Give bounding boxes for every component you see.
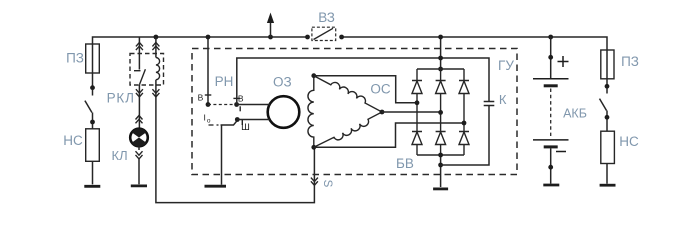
node bus-arrow [268,35,273,40]
svg-text:В: В [198,93,204,103]
svg-text:S: S [321,180,333,188]
wire + rail [417,68,464,70]
wire РКЛ left branch upper [138,37,140,70]
node В' (regulator to ОЗ) [234,102,239,107]
svg-text:АКБ: АКБ [563,107,587,121]
node bus-РКЛ right [154,35,159,40]
wire РКЛ coil to stator star point (node S) [156,80,315,203]
generator unit ГУ dashed box [192,49,517,175]
node phase B to col2 [438,110,443,115]
svg-text:РКЛ: РКЛ [107,90,135,105]
arrow to loads (up) [270,22,272,38]
fuse ПЗ right [601,50,614,79]
switch НС-left (contact) [90,85,95,90]
svg-text:ПЗ: ПЗ [621,54,639,69]
resistor НС right [601,131,615,163]
diode VD3 (col3 top) [459,69,469,132]
relay contact (РКЛ) [134,70,141,72]
connector arrows (star point wire) [311,178,318,186]
node stator right vertex [380,110,385,115]
wire capacitor return [441,106,489,166]
svg-text:ПЗ: ПЗ [66,51,84,66]
wire bus to РН [207,37,209,103]
label + [558,56,569,67]
svg-text:БВ: БВ [396,156,414,171]
svg-text:РН: РН [215,74,234,89]
svg-text:НС: НС [619,134,639,149]
connector arrows (left branch below box) [136,89,143,97]
switch НС-right (contact) [605,84,610,89]
ground (left НС) [84,185,100,188]
ignition switch ВЗ [305,35,310,40]
connector arrows (right branch top) [152,42,159,50]
stator winding ОС (triangle) [308,76,314,148]
wire phase C [314,123,464,147]
ground (БВ) [433,187,448,190]
connector arrows (above lamp) [136,116,143,124]
wire top bus left [93,37,308,44]
svg-text:о: о [207,118,211,125]
battery АКБ [548,35,553,40]
wire В' riser to D+ line and capacitor [237,58,489,105]
capacitor К [484,102,495,106]
svg-text:ОЗ: ОЗ [273,75,292,90]
wire Iо-Ш dashed line [209,124,219,126]
wire left branch to lamp [138,85,140,129]
node stator bottom vertex [311,145,316,150]
label - [556,151,566,153]
wire РН to ground [221,125,223,185]
node phase C to col3 [462,121,467,126]
resistor НС left [86,129,100,162]
svg-text:НС: НС [63,133,83,148]
svg-text:ГУ: ГУ [498,58,514,73]
connector arrows (right branch below box) [152,89,159,97]
svg-text:ВЗ: ВЗ [318,10,335,25]
wire Ш to ОЗ [237,119,269,121]
wire РКЛ right branch upper [155,37,157,58]
diode VD2 (col2 top) [436,69,446,132]
node Ш [235,117,240,122]
diode VD1 (col1 top) [412,69,422,132]
wire - riser to ground [440,155,442,187]
connector arrows (left branch top) [136,42,143,50]
svg-text:К: К [499,92,507,107]
fuse ПЗ left [86,44,100,73]
wire phase B [382,111,441,113]
ground (АКБ) [543,184,559,187]
ground (РН) [205,185,227,188]
svg-text:ОС: ОС [370,82,391,97]
connector arrows (below lamp) [136,151,143,159]
ground (right НС) [600,184,616,187]
wire lamp to ground [138,147,140,185]
excitation winding ОЗ [268,96,300,128]
svg-text:Ш: Ш [241,122,250,133]
wire В dashed link [208,104,237,106]
wire - rail [417,154,464,156]
wire battery to ground [550,148,552,183]
relay РКЛ dashed box [130,54,164,86]
diode VD6 (col3 bottom) [459,132,469,156]
battery cell 1 [533,78,569,80]
battery middle dashed [550,89,552,137]
wire phase A [314,76,417,103]
ground (КЛ) [131,184,147,187]
node stator top vertex [311,73,316,78]
lamp КЛ [130,129,148,147]
svg-text:КЛ: КЛ [112,148,128,163]
node В (regulator input) [205,94,212,96]
wire В to ОЗ [237,104,270,106]
relay coil (РКЛ) [156,58,160,80]
battery cell 2 [533,139,569,141]
wire top bus right [342,37,607,50]
node phase A to col1 [415,100,420,105]
diode VD4 (col1 bottom) [412,132,422,156]
wire + riser [440,37,442,69]
svg-text:I: I [204,112,206,122]
diode VD5 (col2 bottom) [436,132,446,156]
